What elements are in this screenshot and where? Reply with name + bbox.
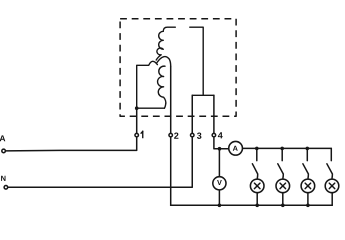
voltmeter letter V	[217, 180, 222, 185]
voltage coil top lead wire	[163, 27, 175, 31]
wire terminal 2 down to load return bus	[170, 138, 172, 206]
bottom return bus	[171, 204, 333, 206]
label terminal 3	[197, 133, 201, 139]
wire junction to voltmeter	[218, 149, 220, 177]
junction dot bus branch 3	[306, 147, 310, 151]
ammeter letter A	[233, 146, 238, 151]
wire terminal2 riser	[170, 66, 172, 132]
label terminal 4	[218, 132, 223, 138]
current coil outer loop from terminal 1	[137, 61, 165, 108]
junction dot voltmeter bottom	[218, 204, 222, 208]
top load bus	[242, 147, 332, 149]
switch S1	[252, 148, 257, 178]
junction dot lamp3 bottom	[306, 204, 310, 208]
lamp L3	[301, 179, 315, 193]
label phase A	[0, 135, 5, 141]
wire terminal N to terminal 3	[8, 138, 192, 188]
junction node voltmeter top	[218, 147, 222, 151]
voltage coil (upper small coil)	[156, 31, 163, 60]
terminal A circle	[2, 149, 6, 153]
switch S3	[303, 148, 309, 178]
voltmeter V1 circle	[213, 177, 226, 190]
wire terminal A to terminal 1	[6, 138, 137, 151]
terminal 3	[191, 133, 195, 137]
terminal 1	[135, 133, 139, 137]
terminal 4	[212, 133, 216, 137]
lamp L2	[276, 179, 290, 193]
label neutral N	[1, 176, 5, 181]
wire terminal 4 to ammeter	[214, 138, 230, 149]
wire terminal1 riser	[136, 108, 138, 133]
junction dot bus branch 2	[280, 147, 284, 151]
terminal 2	[169, 133, 173, 137]
meter enclosure dashed box	[120, 19, 236, 117]
wire voltmeter to bottom bus	[218, 190, 220, 205]
lamp L1	[250, 179, 264, 193]
junction dot bus branch 1	[255, 147, 259, 151]
wire lamp L3 to bus	[307, 193, 309, 205]
junction dot lamp1 bottom	[255, 204, 259, 208]
lamp L4	[325, 179, 339, 193]
voltage coil wire to terminals 3/4	[190, 27, 214, 95]
current coil (lower coil)	[158, 66, 166, 108]
wire lamp L2 to bus	[282, 193, 284, 205]
junction dot lamp2 bottom	[281, 204, 285, 208]
wire terminal3 riser	[191, 95, 193, 132]
switch S4	[327, 148, 333, 178]
terminal N circle	[4, 186, 8, 190]
wire terminal4 riser	[213, 95, 215, 132]
wire hump from coil to terminal 2 lead	[157, 57, 171, 67]
switch S2	[278, 148, 284, 178]
junction dot (terminal1/current coil)	[135, 106, 139, 110]
wire lamp L4 to bus	[331, 193, 333, 205]
wire lamp L1 to bus	[256, 193, 258, 205]
label terminal 2	[174, 133, 178, 139]
ammeter A1 circle	[229, 141, 243, 155]
label terminal 1	[141, 131, 143, 137]
